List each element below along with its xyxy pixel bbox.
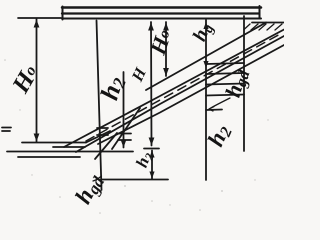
arrowhead up H0 left: [34, 20, 40, 28]
svg-text:h2: h2: [95, 72, 131, 103]
arrowhead down h2 middle: [149, 172, 154, 179]
tick on wall line upper: [97, 127, 108, 129]
rung 2: [206, 73, 244, 74]
tick on V1 for h2 right: [206, 109, 222, 112]
paper speckles: [4, 59, 268, 214]
svg-text:hg: hg: [189, 20, 217, 46]
upper floor line at right: [252, 22, 284, 24]
svg-text:Но: Но: [7, 60, 44, 98]
tick 2 on h2 left: [118, 139, 131, 141]
arrowhead up h2 middle: [149, 151, 154, 158]
vertical line V1: [205, 20, 207, 180]
rung 4: [206, 95, 244, 96]
inclined ramp dashed axis: [86, 33, 282, 141]
arrowhead up H0 right: [163, 23, 169, 31]
ceiling line under beam: [62, 18, 261, 20]
upper floor slab beam top line: [62, 6, 261, 9]
extension line top left for H0: [18, 17, 61, 19]
rung 1: [206, 63, 244, 64]
svg-text:Н: Н: [128, 65, 150, 85]
arrowhead down hd: [203, 61, 208, 68]
svg-text:hgd: hgd: [221, 65, 254, 100]
svg-text:hgd: hgd: [70, 169, 108, 209]
tick on wall line lower: [97, 134, 108, 136]
upper floor slab beam middle line: [62, 12, 259, 14]
lower floor line F4: [18, 156, 80, 158]
leader arrow hgd right: [209, 98, 230, 111]
dimension line H: [150, 22, 153, 146]
svg-text:h2: h2: [203, 121, 236, 151]
arrowhead down h2 left: [121, 141, 126, 148]
beam right end cap: [259, 6, 261, 19]
steep hatch stroke 2 at ramp foot: [95, 133, 117, 159]
steep hatch stroke 1 at ramp foot: [112, 108, 140, 149]
arrowhead down H0 left: [34, 134, 40, 142]
svg-text:Но: Но: [145, 26, 177, 59]
svg-text:h2: h2: [132, 149, 157, 171]
inclined ramp bottom line S3: [98, 45, 284, 144]
arrowhead up hd: [203, 22, 208, 29]
arrowhead up H: [148, 23, 154, 31]
rung 3: [206, 84, 244, 85]
dimension line H0 left: [36, 19, 38, 142]
dimension line h2 middle: [151, 151, 153, 179]
upper edge line of ramp at right: [146, 23, 266, 91]
dimension line h2 left: [123, 72, 125, 148]
edge mark left: [2, 127, 11, 129]
pit floor line: [101, 179, 168, 181]
tick 1 on h2 left: [117, 133, 131, 135]
wall vertical line: [97, 21, 102, 191]
arrowhead down H: [149, 138, 155, 146]
inclined ramp top line S1: [64, 30, 284, 148]
dimension line H0 right: [165, 22, 167, 76]
vertical line V2: [243, 16, 245, 151]
lower floor line F1: [22, 142, 86, 144]
lower floor line F2: [53, 146, 85, 148]
tick at bottom of H: [144, 148, 159, 150]
leader squiggle hgd bottom: [93, 176, 102, 181]
lower floor line F3: [7, 151, 133, 153]
inclined ramp second line S2: [76, 36, 284, 152]
mitre edge at floor-ramp junction: [86, 131, 110, 143]
arrowhead down H0 right: [163, 68, 169, 76]
beam left end cap: [62, 7, 64, 20]
hatch strokes under right floor line: [244, 24, 282, 30]
